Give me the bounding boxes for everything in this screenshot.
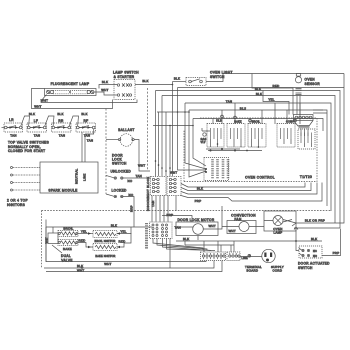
wire door lock feed [105, 109, 107, 195]
transformer T1 windings [213, 159, 229, 179]
svg-text:BAKE: BAKE [234, 121, 242, 124]
disconnect block terminal pairs [152, 178, 176, 192]
svg-text:BAKE IGNITOR: BAKE IGNITOR [95, 255, 115, 258]
svg-text:BLK: BLK [29, 112, 35, 116]
fluorescent lamp tube [45, 89, 97, 96]
valve switch RF [76, 119, 96, 138]
wire motor to bus [197, 236, 199, 241]
oven sensor leads down [297, 96, 300, 115]
wire switch right BLK to bundle [135, 84, 173, 86]
bottom bus 2 [46, 261, 222, 272]
ignitor lead 3 [11, 182, 41, 184]
svg-text:UNLOCKED: UNLOCKED [111, 169, 132, 173]
sensor connector P1 [294, 115, 314, 121]
relay K2 box [227, 124, 245, 148]
wire BLK oven [46, 226, 152, 228]
wires ignitor connector to terminal board [153, 239, 203, 251]
svg-text:WHT: WHT [138, 164, 145, 168]
wire lamp right to starter mid [94, 92, 117, 95]
wire YEL ignitor right [117, 227, 131, 234]
wire lamp return WHT inner [41, 95, 137, 103]
wire into oven light switch [173, 81, 187, 83]
transformer T1 primary feeds [178, 126, 207, 178]
svg-text:DLB: DLB [216, 120, 222, 123]
console boundary dashed [147, 88, 149, 170]
ground symbol [248, 254, 251, 257]
oven sensor cap [296, 74, 300, 77]
relay junction dots [210, 143, 260, 151]
svg-text:BLK OR PRP: BLK OR PRP [305, 218, 325, 222]
svg-text:CONV: CONV [286, 121, 294, 124]
wires disconnect to ignitor connector [152, 196, 168, 223]
svg-text:YEL: YEL [268, 98, 274, 102]
svg-text:DISCONNECT BLOCK: DISCONNECT BLOCK [146, 177, 150, 211]
disconnect block housing right [167, 177, 181, 196]
svg-text:RED: RED [78, 239, 85, 243]
svg-text:BLK: BLK [174, 77, 180, 81]
supply cord plug P2 [262, 249, 275, 262]
bus L5 BLU [189, 110, 327, 206]
wire ballast right lead down [134, 140, 150, 172]
svg-text:NEUTRAL: NEUTRAL [75, 168, 79, 184]
svg-text:FAN: FAN [234, 218, 242, 222]
svg-text:WHT: WHT [77, 268, 84, 272]
wire fan feed [162, 216, 192, 223]
svg-text:CORD: CORD [273, 269, 283, 273]
relay bank feed stubs [213, 103, 300, 124]
bus L1 BLK top [178, 88, 345, 149]
terminal board right block [227, 252, 240, 261]
jumper BLK RR-RF [69, 116, 78, 126]
wire door switch right PRP [322, 229, 341, 256]
svg-text:VLV: VLV [201, 141, 206, 144]
svg-text:WHT: WHT [229, 229, 236, 233]
svg-text:WHT: WHT [104, 262, 111, 266]
wire YEL valve to ignitor [78, 233, 93, 235]
relay K3 box [248, 124, 266, 148]
svg-text:TAN: TAN [34, 134, 40, 138]
dual valve bake coil [58, 240, 78, 246]
svg-text:RED: RED [272, 84, 279, 88]
svg-text:TAN: TAN [136, 174, 142, 178]
jumper BLK LF-RR [45, 116, 54, 126]
center wire bundle [155, 91, 157, 177]
dual valve broil coil [58, 231, 78, 237]
svg-text:OVEN CONTROL: OVEN CONTROL [245, 176, 275, 180]
wire lamp left lead [264, 220, 296, 227]
gas valve pilot symbol [202, 128, 210, 136]
door lock motor box [176, 222, 218, 236]
sensor connector shell [294, 121, 314, 127]
svg-text:WHT: WHT [41, 98, 48, 102]
lamp switch S1 box [114, 80, 135, 100]
oven lamp E1 [273, 216, 283, 226]
svg-text:CLOSED FOR START: CLOSED FOR START [8, 149, 45, 153]
valve pipe diagonal [52, 245, 62, 253]
oven sensor band 1 [296, 88, 302, 90]
valve switch LF [27, 119, 47, 138]
svg-text:BLK: BLK [256, 92, 262, 96]
svg-text:LF: LF [34, 119, 38, 123]
bus L2 BLK [156, 91, 341, 229]
right outer border wire [335, 74, 344, 224]
ignitor lead 1 [11, 167, 41, 169]
bottom junction dots [81, 240, 297, 269]
svg-text:LINE: LINE [83, 173, 87, 181]
door actuated switch contacts [299, 248, 317, 258]
svg-text:WHT: WHT [170, 171, 177, 175]
svg-text:BLK: BLK [311, 237, 317, 241]
svg-text:NO: NO [313, 255, 317, 258]
wire valve top connect [46, 227, 53, 262]
sensor connector hatched block [299, 125, 310, 128]
lamp switch contacts row1 [117, 83, 131, 86]
wire disconnect PRP down [175, 196, 177, 212]
svg-text:SWITCH: SWITCH [112, 162, 127, 166]
svg-text:BROIL: BROIL [63, 226, 73, 230]
svg-text:PRP: PRP [129, 205, 133, 212]
svg-text:& STARTER: & STARTER [114, 75, 135, 79]
relay pilot circles [221, 115, 297, 122]
svg-text:LOCKED: LOCKED [112, 188, 128, 192]
relay K4 box [277, 124, 295, 148]
svg-text:SWITCH: SWITCH [298, 266, 313, 270]
oven light switch S2 [186, 78, 206, 86]
bottom bus 1 [44, 261, 214, 269]
svg-text:SPARK MODULE: SPARK MODULE [48, 189, 77, 193]
wire line to plug [240, 256, 262, 258]
wire oven light switch to right border [206, 74, 344, 82]
svg-text:RED: RED [118, 239, 125, 243]
wire locked to motor PRP [123, 197, 134, 228]
valve switch LR [2, 118, 23, 138]
svg-text:BLK: BLK [255, 87, 261, 91]
oven frame left [41, 211, 43, 269]
svg-text:BLK: BLK [197, 186, 203, 190]
junction dots on bus verticals [169, 84, 194, 127]
svg-text:YEL: YEL [120, 230, 126, 234]
wire unlocked to disconnect [123, 177, 151, 179]
wire bottom bus 2 [185, 241, 234, 252]
terminal board left block [201, 252, 226, 261]
wire lamp return WHT outer [32, 89, 113, 109]
svg-text:BLK: BLK [111, 223, 117, 227]
wire disconnect TAN down [151, 196, 153, 212]
svg-text:BLK: BLK [183, 237, 189, 241]
ignitor connector hatch strip [145, 223, 148, 249]
wire BLK bottom bus [176, 240, 322, 242]
svg-text:RR: RR [58, 119, 64, 123]
svg-text:WHT: WHT [34, 105, 41, 109]
svg-text:PRP: PRP [195, 199, 202, 203]
ignitor lead 4 [11, 189, 41, 191]
wire RF to spark module [81, 132, 83, 162]
bundle junction dots [155, 160, 175, 174]
door lock switch contact locked [106, 193, 134, 198]
bake ignitor [93, 244, 117, 251]
svg-text:NC: NC [313, 250, 317, 253]
wire sensor connector to control top [301, 129, 308, 137]
broil ignitor [93, 231, 117, 238]
oven frame inner [45, 220, 47, 263]
oven frame top wire [42, 210, 332, 212]
svg-text:PRP: PRP [333, 251, 340, 255]
door actuated switch box [299, 246, 322, 258]
svg-text:DOOR LOCK MOTOR: DOOR LOCK MOTOR [177, 218, 214, 222]
oven control box [184, 118, 317, 182]
wire RED to sensor connector [252, 74, 293, 115]
convection fan M2 [239, 222, 249, 232]
disconnect block housing left [151, 177, 167, 196]
svg-text:IGNITORS: IGNITORS [7, 203, 25, 207]
svg-text:RF: RF [84, 119, 89, 123]
wire YEL to sensor connector [263, 91, 289, 115]
wire WHT bottom [46, 261, 206, 262]
svg-text:2 OR 4 TOP: 2 OR 4 TOP [7, 199, 28, 203]
svg-text:LAMP: LAMP [273, 231, 282, 235]
transformer T1 housing [204, 158, 229, 181]
transformer junction dots [205, 148, 223, 173]
door lock motor M1 [193, 224, 204, 235]
door lock switch contact unlocked [106, 175, 133, 183]
dual valve inlet box [48, 233, 58, 244]
wire lamp right to starter top [99, 85, 117, 89]
oven lamp box [264, 211, 296, 231]
oven sensor body [295, 77, 301, 83]
svg-text:TAN: TAN [87, 139, 93, 143]
svg-text:LINE: LINE [242, 257, 248, 260]
wire motor leads [176, 206, 222, 229]
svg-text:BLK: BLK [102, 80, 108, 84]
ignitor connector block [150, 222, 173, 239]
wire RED valve to bake ignitor [78, 243, 93, 248]
svg-text:BOARD: BOARD [247, 269, 259, 273]
svg-text:T1/T20: T1/T20 [300, 175, 312, 179]
spark module box [40, 162, 98, 193]
svg-text:BLK: BLK [142, 79, 148, 83]
bus L3 BLK [162, 96, 335, 224]
jumper BLK LR-LF [21, 116, 30, 126]
wire RED ignitor right [117, 233, 131, 247]
svg-text:TAN: TAN [226, 99, 232, 103]
valve switch RR [52, 119, 72, 138]
svg-text:WHT: WHT [209, 224, 216, 228]
lamp switch contacts row2 [117, 93, 131, 96]
svg-text:BALLAST: BALLAST [118, 128, 134, 132]
relay K1 box [207, 124, 224, 148]
wire sensor connector right feeds [313, 110, 327, 113]
svg-text:BLK: BLK [57, 112, 63, 116]
nested corner wires to control [181, 183, 305, 188]
svg-text:TAN: TAN [10, 134, 16, 138]
wire transformer top [206, 148, 240, 150]
convection fan box [227, 221, 256, 234]
svg-text:FLUORESCENT LAMP: FLUORESCENT LAMP [51, 82, 90, 86]
oven sensor band 2 [296, 93, 302, 95]
ignitor lead 2 [11, 174, 41, 176]
svg-text:YEL: YEL [81, 230, 87, 234]
svg-text:TAN: TAN [59, 134, 65, 138]
svg-text:BROIL: BROIL [252, 121, 261, 124]
svg-text:LR: LR [9, 118, 14, 122]
bus L6 [193, 119, 323, 132]
svg-text:BROIL IGNITOR: BROIL IGNITOR [94, 240, 115, 243]
wire ballast left lead [106, 139, 118, 141]
svg-text:SENSOR: SENSOR [305, 82, 321, 86]
ballast B1 [118, 134, 134, 147]
svg-text:BLU: BLU [240, 106, 247, 110]
svg-text:WHT: WHT [101, 88, 108, 92]
relay common wire [208, 150, 262, 152]
svg-text:BAKE: BAKE [63, 247, 72, 251]
svg-text:BLK: BLK [81, 112, 87, 116]
relay K5 box [298, 129, 315, 149]
bus L4 TAN [185, 103, 331, 211]
svg-text:NO: NO [128, 179, 133, 183]
wire door switch feed [294, 227, 340, 229]
wire BLK OR PRP [296, 222, 335, 224]
svg-text:TAN: TAN [151, 201, 155, 207]
wire fan leads [222, 226, 264, 228]
